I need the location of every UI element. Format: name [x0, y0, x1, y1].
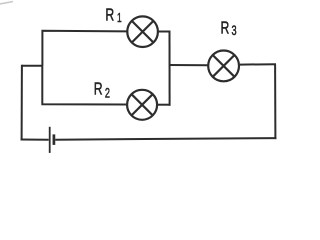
wire: bottom wire right segment: [55, 138, 276, 140]
wire: bottom branch right segment (R2 to right bus): [157, 104, 170, 106]
svg-text:R: R: [94, 79, 103, 99]
wire: outer right vertical: [274, 64, 276, 139]
lamp R3: [208, 51, 239, 82]
label R3: [221, 18, 237, 39]
wire: top branch right segment (R1 to right bus): [158, 31, 171, 33]
wire: outer left vertical: [21, 65, 23, 141]
svg-text:2: 2: [105, 87, 110, 101]
label R2: [94, 79, 110, 101]
battery cell B1 short negative plate: [53, 134, 56, 145]
lamp R1: [127, 16, 158, 47]
svg-text:R: R: [105, 5, 114, 25]
svg-text:3: 3: [232, 25, 237, 39]
wire: top branch left segment: [42, 31, 127, 66]
lamp R2: [127, 90, 157, 120]
wire: left parallel bus lower half: [42, 66, 127, 105]
wire: middle wire bus to R3: [170, 64, 208, 66]
scan artifact top-left: [0, 2, 13, 5]
wire: bottom wire left segment: [21, 139, 49, 141]
svg-text:R: R: [221, 18, 230, 38]
battery cell B1 long positive plate: [49, 127, 51, 153]
wire: left stub to outer loop: [22, 65, 43, 67]
svg-text:1: 1: [117, 11, 122, 25]
label R1: [105, 5, 121, 25]
wire: right parallel bus: [169, 31, 171, 106]
wire: R3 to right edge: [240, 63, 276, 65]
